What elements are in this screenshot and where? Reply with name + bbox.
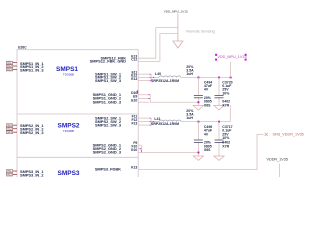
svg-text:SMPS2_SW_3: SMPS2_SW_3 bbox=[95, 122, 122, 127]
junction arrows SMPS1_GND bbox=[149, 94, 200, 103]
svg-text:0.1uF: 0.1uF bbox=[222, 129, 232, 133]
left pin numbers in boxes bbox=[7, 62, 12, 177]
capacitor C496 bbox=[197, 122, 200, 156]
svg-text:F13: F13 bbox=[131, 121, 137, 125]
svg-text:1uH: 1uH bbox=[186, 72, 193, 76]
ground under C3717 bbox=[214, 156, 224, 160]
junction dots on rail1 bbox=[198, 77, 232, 79]
svg-text:C496: C496 bbox=[204, 125, 212, 129]
svg-text:TDO06B: TDO06B bbox=[63, 73, 74, 77]
ground under C3720 bbox=[214, 105, 224, 110]
block U26C outline bbox=[17, 50, 138, 179]
wire SMPS2_GND to cap grounds bbox=[141, 151, 198, 154]
svg-text:0805: 0805 bbox=[204, 100, 212, 104]
svg-text:SMPS1_GND_3: SMPS1_GND_3 bbox=[93, 99, 122, 104]
svg-text:SRP2512A-1R0M: SRP2512A-1R0M bbox=[151, 79, 179, 83]
values 20% 3.5A 1uH (L40) bbox=[186, 65, 194, 76]
ground under C494 bbox=[193, 105, 203, 110]
svg-text:C12: C12 bbox=[131, 58, 137, 62]
svg-text:Remote Sensing: Remote Sensing bbox=[186, 29, 215, 34]
svg-text:C3720: C3720 bbox=[222, 80, 232, 84]
svg-text:D11: D11 bbox=[7, 62, 12, 65]
ground under C496 bbox=[193, 156, 203, 160]
svg-text:E9: E9 bbox=[133, 95, 137, 99]
svg-text:SRP2512A-1R0M: SRP2512A-1R0M bbox=[151, 122, 179, 126]
svg-text:G13: G13 bbox=[7, 131, 12, 134]
wire VDD_MPU_1V15 label to rail bbox=[229, 62, 232, 78]
svg-text:SMPS12_FBK_GND: SMPS12_FBK_GND bbox=[90, 59, 127, 64]
svg-text:E13: E13 bbox=[131, 77, 137, 81]
values 20% 3.5A 1uH (L41) bbox=[186, 109, 194, 120]
wire SMPS12_FBK_GND remote sense bbox=[138, 34, 178, 62]
svg-text:G12: G12 bbox=[7, 128, 12, 131]
junction arrows SMPS2_GND bbox=[140, 148, 200, 153]
wire SMPS3_FDBK sense line bbox=[138, 135, 263, 170]
svg-text:X7R: X7R bbox=[222, 103, 229, 107]
svg-text:4V: 4V bbox=[204, 132, 209, 136]
svg-text:X6S: X6S bbox=[204, 148, 211, 152]
svg-text:0402: 0402 bbox=[222, 141, 230, 145]
SMPS2_GND pin stubs and bus bbox=[138, 145, 198, 152]
svg-text:SMPS3_IN_2: SMPS3_IN_2 bbox=[20, 173, 44, 178]
svg-text:X6S: X6S bbox=[204, 103, 211, 107]
svg-text:SMPS1_IN_3: SMPS1_IN_3 bbox=[20, 68, 44, 73]
svg-text:SMPS2_GND_3: SMPS2_GND_3 bbox=[93, 150, 122, 155]
capacitor C3717 bbox=[217, 122, 220, 156]
stub wire above rail2 end bbox=[229, 105, 232, 122]
svg-text:VDD_MPU_1V15: VDD_MPU_1V15 bbox=[217, 55, 246, 59]
svg-text:H11: H11 bbox=[7, 170, 12, 173]
values C3720 bbox=[222, 80, 232, 107]
svg-text:47uF: 47uF bbox=[204, 84, 213, 88]
rail VDD_MPU_1V15 (SMPS1 output) bbox=[181, 76, 231, 79]
svg-text:L40: L40 bbox=[155, 72, 161, 76]
svg-text:D12: D12 bbox=[7, 65, 12, 68]
right pin labels (right aligned) bbox=[90, 55, 127, 171]
svg-text:SMPS2_IN_3: SMPS2_IN_3 bbox=[20, 130, 44, 135]
svg-text:X7R: X7R bbox=[222, 144, 229, 148]
left off-page pin boxes SMPS3 bbox=[6, 170, 12, 173]
svg-text:SMPS1: SMPS1 bbox=[56, 66, 78, 73]
pin numbers right side bbox=[131, 54, 138, 169]
left input pin labels SMPS1_IN_1..3 bbox=[20, 61, 44, 178]
svg-text:G10: G10 bbox=[131, 148, 138, 152]
rail VDDR_1V35 (SMPS2 output) bbox=[181, 120, 230, 123]
svg-text:SMPS1_SW_3: SMPS1_SW_3 bbox=[95, 78, 122, 83]
left input wires bbox=[13, 63, 17, 175]
svg-text:H12: H12 bbox=[7, 174, 12, 177]
junction arrows SMPS2_SW bbox=[150, 117, 155, 125]
SMPS2_SW pin stubs and bus bbox=[138, 118, 159, 125]
svg-text:U26C: U26C bbox=[18, 45, 27, 49]
svg-text:SMPS3_FDBK: SMPS3_FDBK bbox=[95, 167, 121, 172]
svg-text:L41: L41 bbox=[154, 117, 160, 121]
svg-text:20%: 20% bbox=[204, 141, 212, 145]
svg-text:0805: 0805 bbox=[204, 144, 212, 148]
power arrow symbol VDD_MPU_1V15 bbox=[173, 14, 183, 49]
svg-text:VDDR_1V35: VDDR_1V35 bbox=[267, 158, 288, 162]
wire SMPS1_GND to cap grounds bbox=[150, 101, 198, 104]
values C496 bbox=[204, 125, 213, 152]
inductor L40 bbox=[159, 76, 181, 78]
selection handles bbox=[215, 54, 247, 61]
svg-text:25V: 25V bbox=[222, 132, 229, 136]
svg-text:D10: D10 bbox=[131, 91, 137, 95]
svg-text:VDD_MPU_1V15: VDD_MPU_1V15 bbox=[164, 10, 188, 14]
svg-text:SMPS3: SMPS3 bbox=[58, 170, 80, 177]
wire VDDR_1V35 going off page bbox=[278, 164, 281, 177]
svg-text:25V: 25V bbox=[222, 88, 229, 92]
dangler marker at D10 stub bbox=[137, 90, 138, 93]
inductor L41 bbox=[159, 120, 181, 122]
no-connect X marker bbox=[265, 133, 268, 136]
svg-text:C3717: C3717 bbox=[222, 125, 232, 129]
svg-text:K13: K13 bbox=[131, 166, 137, 170]
svg-text:SMPS2: SMPS2 bbox=[58, 122, 80, 129]
svg-text:20%: 20% bbox=[204, 96, 212, 100]
svg-text:1uH: 1uH bbox=[186, 116, 193, 120]
capacitor C494 bbox=[197, 77, 200, 105]
values C494 bbox=[204, 80, 213, 107]
svg-text:SNS_VDDR_1V35: SNS_VDDR_1V35 bbox=[273, 133, 304, 137]
junction arrows SMPS1_SW bbox=[150, 74, 155, 82]
svg-text:G11: G11 bbox=[7, 124, 12, 127]
junction dots on rail2 bbox=[198, 121, 221, 123]
SMPS1_GND pin stubs and bus bbox=[138, 95, 198, 103]
SMPS1_SW pin stubs and bus bbox=[138, 74, 159, 80]
section divider SMPS2/SMPS3 bbox=[17, 156, 138, 159]
svg-text:4V: 4V bbox=[204, 88, 209, 92]
svg-text:D13: D13 bbox=[7, 68, 12, 71]
values C3717 bbox=[222, 125, 232, 148]
svg-text:47uF: 47uF bbox=[204, 129, 213, 133]
capacitor C3720 bbox=[217, 77, 220, 105]
svg-text:10%: 10% bbox=[222, 136, 230, 140]
svg-text:E10: E10 bbox=[131, 98, 137, 102]
left off-page pin boxes SMPS1 bbox=[6, 61, 12, 176]
wire SMPS12_FBK remote sense bbox=[138, 28, 178, 59]
section divider SMPS1/SMPS2 bbox=[17, 112, 138, 115]
svg-text:C494: C494 bbox=[204, 80, 212, 84]
svg-text:0.1uF: 0.1uF bbox=[222, 84, 232, 88]
svg-text:TDO06B: TDO06B bbox=[63, 129, 74, 133]
svg-text:10%: 10% bbox=[222, 91, 230, 95]
svg-text:0402: 0402 bbox=[222, 100, 230, 104]
left off-page pin boxes SMPS2 bbox=[6, 124, 12, 127]
